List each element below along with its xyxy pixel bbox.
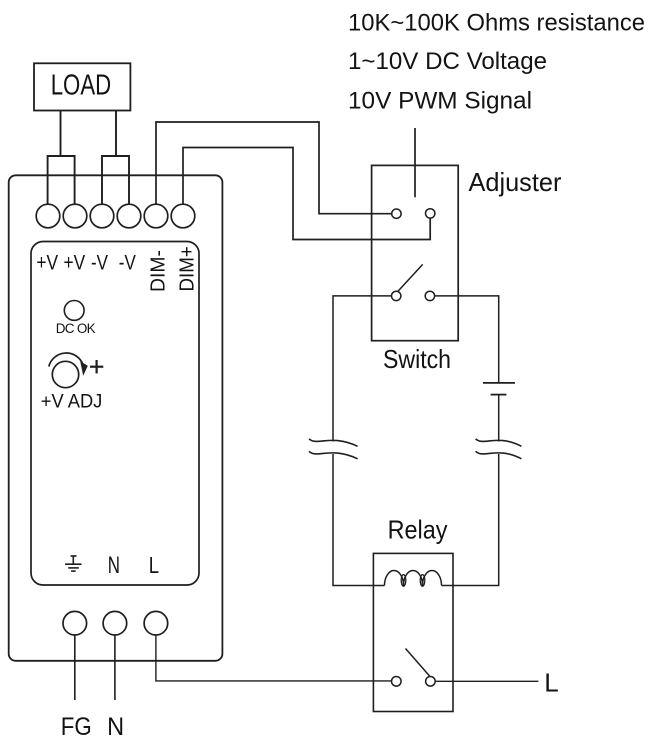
terminal -V 1 bbox=[90, 204, 114, 228]
terminal +V 1 bbox=[36, 204, 60, 228]
switch blade bbox=[398, 264, 423, 291]
svg-text:-V: -V bbox=[91, 251, 108, 274]
svg-text:-V: -V bbox=[119, 251, 136, 274]
wire switch right to capacitor bbox=[434, 296, 498, 382]
terminal -V 2 bbox=[117, 204, 141, 228]
node adjuster pin left bbox=[392, 209, 401, 218]
adjuster box bbox=[372, 165, 459, 340]
wire -V fork bbox=[102, 156, 129, 205]
svg-text:Switch: Switch bbox=[383, 344, 451, 374]
wire +V fork bbox=[48, 156, 75, 205]
terminal FG bbox=[63, 611, 87, 635]
wire capacitor down bbox=[498, 395, 500, 442]
wire relay to L bbox=[435, 680, 538, 682]
wire LOAD left lead bbox=[60, 111, 62, 157]
ground symbol FG bbox=[65, 556, 81, 571]
wire LOAD right lead bbox=[115, 111, 117, 157]
wire switch left to relay coil bbox=[333, 296, 392, 442]
svg-text:Relay: Relay bbox=[388, 515, 448, 545]
svg-text:Adjuster: Adjuster bbox=[469, 167, 562, 197]
power supply outline bbox=[9, 175, 223, 661]
wire break right bbox=[476, 439, 522, 459]
wire N lead bbox=[114, 635, 116, 700]
svg-text:L: L bbox=[149, 552, 159, 578]
wire FG lead bbox=[74, 635, 76, 700]
terminal DIM+ bbox=[171, 204, 195, 228]
load LOAD box bbox=[34, 63, 130, 110]
switch contact right bbox=[425, 291, 434, 300]
terminal +V 2 bbox=[63, 204, 87, 228]
svg-text:L: L bbox=[544, 668, 559, 698]
svg-text:DIM+: DIM+ bbox=[176, 246, 198, 291]
svg-text:10V PWM Signal: 10V PWM Signal bbox=[348, 88, 532, 115]
svg-text:DIM-: DIM- bbox=[148, 250, 170, 292]
svg-text:LOAD: LOAD bbox=[51, 70, 111, 102]
switch contact left bbox=[392, 291, 401, 300]
wire DIM- to adjuster bbox=[156, 122, 392, 214]
relay contact left bbox=[392, 677, 402, 687]
wire right break to coil bbox=[442, 454, 499, 586]
svg-text:+V: +V bbox=[36, 251, 58, 274]
terminal L bbox=[144, 611, 168, 635]
relay blade bbox=[406, 649, 430, 677]
wire left break to coil bbox=[333, 454, 385, 586]
wire break left bbox=[309, 439, 358, 459]
svg-text:DC OK: DC OK bbox=[56, 321, 96, 336]
LED DC OK bbox=[56, 301, 96, 337]
wire DIM+ to adjuster bbox=[183, 148, 430, 240]
svg-text:+V ADJ: +V ADJ bbox=[41, 391, 103, 413]
svg-text:+V: +V bbox=[64, 251, 86, 274]
relay box bbox=[373, 553, 453, 711]
svg-text:N: N bbox=[108, 552, 120, 579]
terminal DIM- bbox=[144, 204, 168, 228]
terminal N bbox=[103, 611, 127, 635]
relay contact right bbox=[426, 677, 436, 687]
wire L to relay switch bbox=[156, 635, 392, 681]
svg-text:N: N bbox=[107, 713, 124, 741]
svg-text:FG: FG bbox=[61, 713, 92, 741]
potentiometer +V ADJ bbox=[41, 353, 104, 412]
power supply faceplate bbox=[31, 242, 199, 586]
relay coil bbox=[385, 571, 442, 587]
svg-text:1~10V DC Voltage: 1~10V DC Voltage bbox=[348, 48, 547, 75]
capacitor bbox=[483, 383, 515, 395]
node adjuster pin right bbox=[426, 209, 435, 218]
svg-text:10K~100K Ohms resistance: 10K~100K Ohms resistance bbox=[348, 10, 645, 37]
wire PWM input bbox=[414, 128, 416, 197]
